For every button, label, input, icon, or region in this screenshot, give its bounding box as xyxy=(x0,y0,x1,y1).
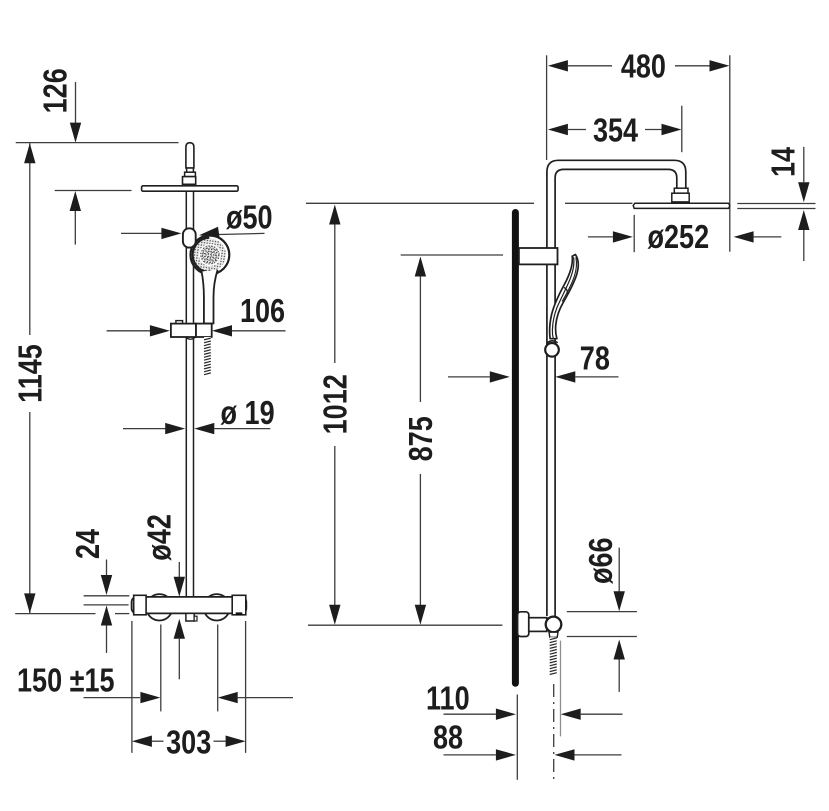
label 14 xyxy=(766,147,802,177)
svg-text:303: 303 xyxy=(166,725,211,761)
datum line outlet bottom xyxy=(567,636,637,638)
dimension arrow pointing right at holder knob xyxy=(121,228,181,239)
svg-text:ø42: ø42 xyxy=(142,514,178,561)
dimension 480 extension line left xyxy=(546,55,548,160)
dimension 150 line and arrows xyxy=(84,692,294,703)
hand shower (side view) xyxy=(550,255,579,339)
label 110 xyxy=(426,681,470,717)
label ø66 xyxy=(584,537,620,584)
extension line at wall face xyxy=(516,695,518,780)
hose outlet escutcheon xyxy=(518,612,529,637)
wall bar xyxy=(512,213,519,684)
reference line at wall bracket xyxy=(401,254,503,256)
svg-text:88: 88 xyxy=(433,720,463,756)
rain shower head disc (side view) xyxy=(633,203,730,208)
extension line right connection axis xyxy=(217,625,219,712)
mixer valve right end cap xyxy=(232,595,246,615)
label 88 xyxy=(433,720,463,756)
extension line 110 xyxy=(560,641,562,737)
reference line top-left (upper datum) xyxy=(16,142,179,144)
svg-text:110: 110 xyxy=(426,681,470,717)
datum line rain head bottom (right) xyxy=(737,208,815,210)
rain head connector rings (side view) xyxy=(672,188,689,202)
hose centerline (dash-dot) xyxy=(553,684,555,780)
svg-text:ø50: ø50 xyxy=(226,200,273,236)
short datum line at mixer axis xyxy=(84,604,129,606)
riser pipe top cap xyxy=(186,143,194,168)
svg-text:354: 354 xyxy=(593,113,638,149)
extension line mixer left end xyxy=(131,621,133,753)
dimension ø252 extension line left xyxy=(633,215,635,252)
outlet mark on right cap xyxy=(236,612,243,615)
svg-text:ø252: ø252 xyxy=(648,220,710,256)
dimension 78 line and arrows xyxy=(448,371,619,382)
mixer valve left end cap xyxy=(134,595,146,615)
holder knob (side view) xyxy=(545,341,559,357)
svg-text:14: 14 xyxy=(766,147,802,177)
label 480 xyxy=(621,49,666,85)
shower hose (side view) xyxy=(550,637,557,676)
holder knob xyxy=(183,228,196,247)
hand shower head face with spray nozzles xyxy=(191,236,230,275)
svg-text:150 ±15: 150 ±15 xyxy=(17,663,115,699)
reference line at rain shower head xyxy=(55,190,132,192)
svg-text:480: 480 xyxy=(621,49,666,85)
mixer valve handle left xyxy=(146,594,172,620)
label 106 xyxy=(240,294,285,330)
dimension ø50 leader with arrow xyxy=(198,227,264,241)
svg-text:875: 875 xyxy=(404,416,440,461)
dimension 303 line and outward arrows xyxy=(132,736,246,747)
extension line left connection axis xyxy=(160,625,162,712)
datum line outlet top xyxy=(567,611,637,613)
hose outlet ball joint xyxy=(546,617,562,633)
mixer valve body xyxy=(132,597,247,614)
dimension ø66 line with arrows xyxy=(614,548,625,692)
reference line bottom-left datum xyxy=(15,613,129,615)
dimension 480 extension line right xyxy=(729,55,731,251)
svg-text:1012: 1012 xyxy=(318,374,354,434)
svg-text:ø66: ø66 xyxy=(584,537,620,584)
reference line top datum (side view) xyxy=(306,202,633,204)
dimension 354 line and arrows xyxy=(548,124,682,135)
dimension 875 line with arrows xyxy=(415,257,426,625)
dimension 126 lower arrow xyxy=(70,191,81,245)
rain shower head disc (front view) xyxy=(142,186,239,191)
dimension 106 line and arrows xyxy=(107,325,286,336)
dimension 1012 line with arrows xyxy=(329,205,340,625)
hose connector nut xyxy=(549,632,558,637)
dimension 1145 line with end arrows xyxy=(24,143,35,613)
svg-text:ø 19: ø 19 xyxy=(221,395,275,431)
label ø19 xyxy=(221,395,275,431)
label 354 xyxy=(593,113,638,149)
short datum line at mixer top xyxy=(84,595,130,597)
svg-text:126: 126 xyxy=(38,68,74,113)
dimension 354 extension line xyxy=(681,106,683,153)
wall bracket (side view) xyxy=(519,248,558,264)
label 875 xyxy=(404,416,440,461)
extension line mixer right end xyxy=(245,621,247,753)
svg-text:24: 24 xyxy=(71,529,107,559)
label 303 xyxy=(166,725,211,761)
dimension 88 line and arrows xyxy=(444,749,622,760)
dimension 480 line and arrows xyxy=(548,60,730,71)
label ø252 xyxy=(648,220,710,256)
mixer bottom connector xyxy=(186,613,197,621)
mixer valve handle right xyxy=(204,594,230,620)
riser pipe top connector rings xyxy=(183,168,196,184)
shower hose (front view) xyxy=(204,337,211,376)
svg-text:78: 78 xyxy=(580,341,610,377)
dimension 110 line and arrows xyxy=(444,709,623,720)
reference line bottom datum (side view) xyxy=(308,624,502,626)
hose outlet arm xyxy=(529,618,547,632)
label 78 xyxy=(580,341,610,377)
dimension ø252 line and arrows xyxy=(588,231,781,242)
label 126 xyxy=(38,68,74,113)
label 24 xyxy=(71,529,107,559)
datum line rain head top (right) xyxy=(737,203,815,205)
hand shower handle xyxy=(202,270,218,324)
slide bar holder block xyxy=(171,321,212,340)
dimension ø19 line and arrows xyxy=(123,423,270,434)
label ø50 xyxy=(226,200,273,236)
riser pipe (front view) xyxy=(186,191,193,597)
svg-text:1145: 1145 xyxy=(13,344,49,403)
dimension ø42 line with arrows xyxy=(174,562,185,679)
label 150 plus-minus 15 xyxy=(17,663,115,699)
dimension 24 line with arrows xyxy=(101,560,112,653)
shower pipe (side view) xyxy=(547,160,686,616)
label ø42 xyxy=(142,514,178,561)
svg-text:106: 106 xyxy=(240,294,285,330)
dimension 14 line with arrows xyxy=(798,147,809,261)
label 1012 xyxy=(318,374,354,434)
label 1145 xyxy=(13,344,49,403)
dimension 126 leader line xyxy=(70,82,81,143)
